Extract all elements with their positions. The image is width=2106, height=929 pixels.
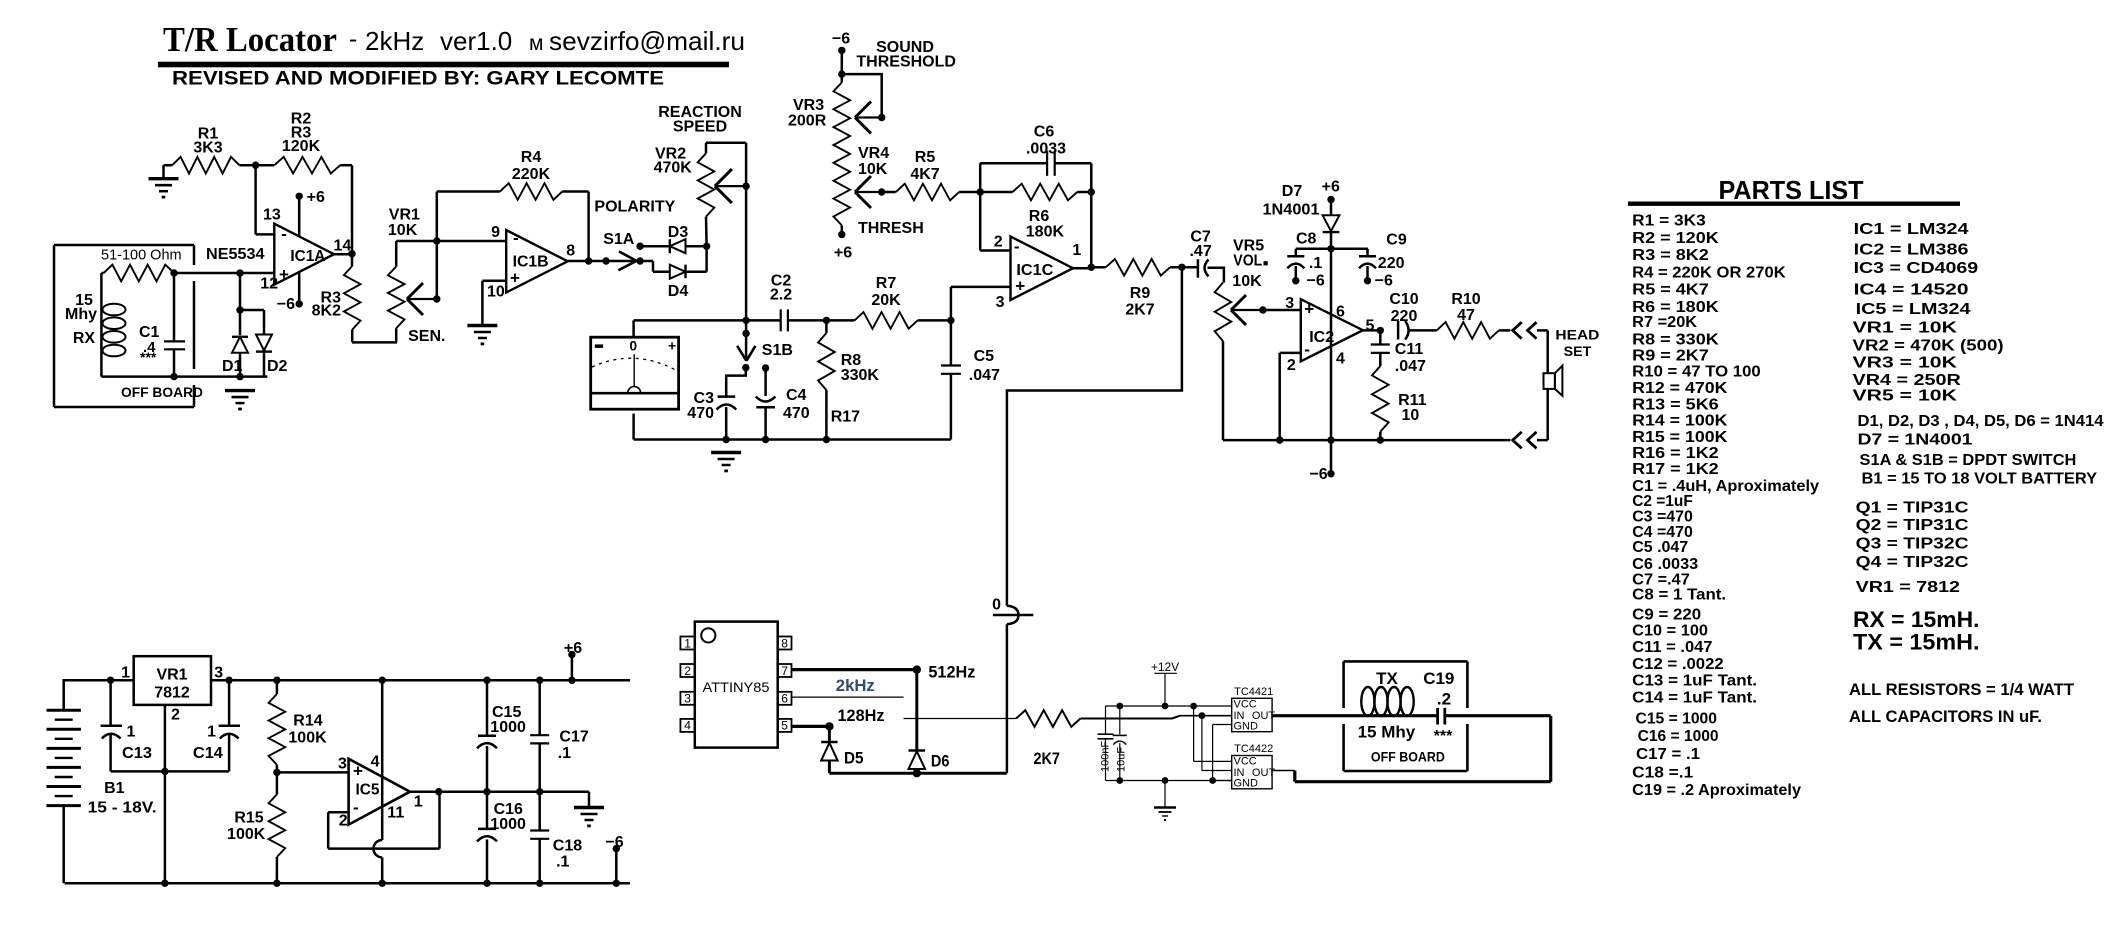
svg-text:D1: D1 (222, 358, 243, 375)
svg-text:C17 = .1: C17 = .1 (1636, 746, 1700, 763)
svg-text:C15 = 1000: C15 = 1000 (1636, 710, 1718, 727)
svg-text:1: 1 (207, 724, 216, 741)
svg-text:1: 1 (684, 636, 691, 650)
svg-text:15 - 18V.: 15 - 18V. (88, 800, 157, 817)
svg-text:м: м (529, 32, 543, 55)
svg-text:330K: 330K (841, 367, 880, 384)
svg-text:+6: +6 (564, 640, 582, 657)
svg-text:2: 2 (1287, 357, 1296, 374)
svg-text:1: 1 (127, 724, 136, 741)
svg-text:2K7: 2K7 (1125, 302, 1154, 319)
svg-text:R17 = 1K2: R17 = 1K2 (1632, 461, 1719, 478)
svg-text:B1: B1 (104, 780, 125, 797)
svg-text:5: 5 (781, 719, 788, 733)
svg-text:C3 =470: C3 =470 (1632, 508, 1693, 525)
svg-text:ATTINY85: ATTINY85 (703, 679, 770, 695)
svg-text:11: 11 (387, 804, 404, 821)
svg-text:128Hz: 128Hz (838, 707, 885, 725)
svg-text:4: 4 (1336, 351, 1345, 368)
svg-text:220: 220 (1391, 308, 1418, 325)
svg-text:C8: C8 (1296, 231, 1317, 248)
svg-text:ALL CAPACITORS IN uF.: ALL CAPACITORS IN uF. (1849, 708, 2042, 726)
svg-text:Q3 = TIP32C: Q3 = TIP32C (1856, 536, 1969, 553)
svg-text:10uF: 10uF (1115, 747, 1127, 772)
svg-text:470: 470 (687, 405, 714, 422)
svg-text:POLARITY: POLARITY (594, 199, 675, 216)
svg-text:VR2 = 470K (500): VR2 = 470K (500) (1853, 338, 2004, 355)
svg-text:VR4: VR4 (858, 145, 889, 162)
svg-text:47: 47 (1457, 307, 1475, 324)
svg-text:C5: C5 (974, 348, 995, 365)
svg-text:-: - (353, 798, 359, 817)
svg-text:.1: .1 (556, 854, 569, 871)
svg-text:VR3 = 10K: VR3 = 10K (1853, 354, 1958, 371)
svg-text:C6: C6 (1034, 124, 1055, 141)
svg-text:VOL: VOL (1233, 252, 1262, 269)
svg-text:6: 6 (781, 692, 788, 706)
svg-text:sevzirfo@mail.ru: sevzirfo@mail.ru (549, 26, 745, 56)
svg-text:.047: .047 (969, 367, 1000, 384)
svg-text:PARTS LIST: PARTS LIST (1719, 175, 1864, 205)
svg-text:−6: −6 (832, 30, 850, 47)
svg-text:8K2: 8K2 (312, 303, 341, 320)
svg-text:R3 = 8K2: R3 = 8K2 (1632, 247, 1709, 264)
svg-text:R12 = 470K: R12 = 470K (1632, 380, 1728, 397)
svg-text:2: 2 (994, 233, 1003, 250)
svg-text:C9 = 220: C9 = 220 (1632, 606, 1701, 623)
svg-text:D4: D4 (668, 283, 689, 300)
svg-text:Q4 = TIP32C: Q4 = TIP32C (1856, 554, 1969, 571)
svg-text:C11 = .047: C11 = .047 (1632, 639, 1712, 656)
svg-text:THRESH: THRESH (858, 220, 924, 237)
svg-text:3: 3 (684, 692, 691, 706)
svg-text:10: 10 (1402, 407, 1420, 424)
svg-text:R13 = 5K6: R13 = 5K6 (1632, 396, 1719, 413)
svg-text:7: 7 (781, 664, 788, 678)
svg-text:T/R Locator: T/R Locator (163, 20, 337, 59)
svg-text:C5 .047: C5 .047 (1632, 539, 1688, 556)
svg-text:C4: C4 (786, 387, 807, 404)
svg-text:.1: .1 (1309, 255, 1322, 272)
svg-text:C12 = .0022: C12 = .0022 (1632, 656, 1724, 673)
svg-text:+: + (279, 265, 289, 284)
svg-text:R4 = 220K OR 270K: R4 = 220K OR 270K (1632, 264, 1786, 281)
svg-text:R5 = 4K7: R5 = 4K7 (1632, 282, 1709, 299)
svg-text:.0033: .0033 (1026, 141, 1066, 158)
svg-text:REVISED AND MODIFIED BY: GARY: REVISED AND MODIFIED BY: GARY LECOMTE (172, 68, 664, 90)
svg-text:IC3 = CD4069: IC3 = CD4069 (1854, 260, 1979, 277)
svg-text:R5: R5 (915, 149, 936, 166)
svg-text:4K7: 4K7 (910, 166, 939, 183)
svg-text:D5: D5 (844, 750, 864, 768)
svg-text:10K: 10K (388, 222, 418, 239)
svg-text:VR1 = 10K: VR1 = 10K (1853, 319, 1958, 336)
svg-text:9: 9 (491, 224, 500, 241)
svg-text:C9: C9 (1386, 232, 1407, 249)
svg-text:-: - (349, 25, 357, 53)
svg-text:10K: 10K (1232, 273, 1262, 290)
svg-text:7812: 7812 (154, 684, 190, 701)
svg-text:C10: C10 (1389, 291, 1418, 308)
svg-text:R9: R9 (1130, 285, 1151, 302)
svg-text:220: 220 (1378, 255, 1405, 272)
svg-text:5: 5 (1366, 318, 1375, 335)
svg-text:470K: 470K (654, 160, 693, 177)
svg-text:D7: D7 (1282, 183, 1303, 200)
svg-text:1000: 1000 (490, 816, 526, 833)
svg-text:ALL RESISTORS = 1/4 WATT: ALL RESISTORS = 1/4 WATT (1849, 681, 2074, 699)
svg-text:VCC: VCC (1234, 756, 1257, 768)
svg-text:VR5 = 10K: VR5 = 10K (1853, 388, 1958, 405)
svg-text:C10 = 100: C10 = 100 (1632, 623, 1708, 640)
svg-text:.47: .47 (1189, 243, 1211, 260)
svg-text:R10: R10 (1451, 291, 1480, 308)
svg-text:C11: C11 (1395, 341, 1424, 358)
svg-text:−6: −6 (1375, 273, 1393, 290)
svg-text:-: - (281, 224, 287, 243)
svg-text:D1, D2, D3 , D4, D5, D6 = 1N41: D1, D2, D3 , D4, D5, D6 = 1N414 (1858, 413, 2104, 430)
svg-text:GND: GND (1234, 778, 1259, 790)
svg-text:C8 = 1 Tant.: C8 = 1 Tant. (1632, 587, 1726, 604)
svg-text:C13: C13 (122, 745, 152, 762)
svg-text:Mhy: Mhy (65, 306, 97, 323)
svg-text:S1A & S1B = DPDT SWITCH: S1A & S1B = DPDT SWITCH (1860, 452, 2077, 469)
svg-text:D7 = 1N4001: D7 = 1N4001 (1858, 432, 1973, 449)
svg-text:GND: GND (1234, 720, 1259, 732)
svg-text:100nF: 100nF (1100, 741, 1112, 772)
svg-text:S1B: S1B (762, 342, 793, 359)
svg-text:−6: −6 (1309, 466, 1327, 483)
svg-text:+: + (510, 269, 520, 288)
svg-text:-: - (1014, 237, 1020, 256)
svg-text:ver1.0: ver1.0 (440, 26, 512, 56)
svg-text:TX: TX (1376, 669, 1398, 688)
svg-text:2kHz: 2kHz (836, 677, 875, 695)
svg-text:.047: .047 (1395, 358, 1426, 375)
svg-text:8: 8 (781, 636, 788, 650)
svg-text:+6: +6 (834, 245, 852, 262)
svg-text:VR1: VR1 (389, 207, 420, 224)
svg-text:+: + (1304, 299, 1314, 318)
svg-text:R10 = 47 TO 100: R10 = 47 TO 100 (1632, 363, 1761, 380)
svg-text:C19: C19 (1423, 669, 1454, 688)
svg-text:***: *** (1434, 728, 1453, 745)
svg-text:TC4422: TC4422 (1234, 743, 1273, 755)
svg-text:R4: R4 (521, 149, 542, 166)
svg-text:C17: C17 (559, 729, 588, 746)
svg-text:R16 = 1K2: R16 = 1K2 (1632, 445, 1719, 462)
svg-text:C19 = .2 Aproximately: C19 = .2 Aproximately (1632, 782, 1801, 799)
svg-text:100K: 100K (227, 826, 266, 843)
svg-text:+12V: +12V (1151, 660, 1179, 674)
svg-text:0: 0 (629, 338, 637, 354)
svg-text:12: 12 (260, 276, 278, 293)
svg-text:1000: 1000 (490, 719, 526, 736)
svg-text:−6: −6 (1307, 273, 1325, 290)
svg-text:R7 =20K: R7 =20K (1632, 314, 1697, 331)
svg-text:120K: 120K (282, 138, 321, 155)
svg-text:RX: RX (73, 330, 96, 347)
svg-text:2: 2 (171, 707, 180, 724)
svg-text:C16 = 1000: C16 = 1000 (1638, 728, 1719, 745)
svg-text:470: 470 (783, 405, 810, 422)
svg-text:0: 0 (992, 596, 1001, 613)
svg-text:−6: −6 (277, 296, 295, 313)
svg-text:14: 14 (334, 238, 352, 255)
svg-text:10: 10 (487, 283, 505, 300)
svg-text:3K3: 3K3 (193, 139, 222, 156)
svg-text:200R: 200R (788, 112, 827, 129)
svg-text:VR1: VR1 (156, 666, 187, 683)
svg-text:R7: R7 (876, 275, 897, 292)
svg-text:TX = 15mH.: TX = 15mH. (1853, 630, 1980, 655)
svg-text:4: 4 (684, 719, 691, 733)
svg-text:Q1 = TIP31C: Q1 = TIP31C (1856, 500, 1969, 517)
svg-text:RX = 15mH.: RX = 15mH. (1853, 607, 1980, 632)
svg-text:15 Mhy: 15 Mhy (1358, 723, 1416, 742)
svg-text:2: 2 (684, 664, 691, 678)
svg-text:1N4001: 1N4001 (1263, 202, 1320, 219)
svg-text:IC4 = 14520: IC4 = 14520 (1854, 282, 1969, 299)
svg-text:SPEED: SPEED (673, 119, 727, 136)
svg-text:IC1 = LM324: IC1 = LM324 (1854, 221, 1969, 238)
svg-text:VCC: VCC (1234, 699, 1257, 711)
svg-text:R15 = 100K: R15 = 100K (1632, 429, 1728, 446)
svg-text:8: 8 (566, 243, 575, 260)
svg-text:+6: +6 (307, 189, 325, 206)
svg-text:THRESHOLD: THRESHOLD (856, 53, 956, 70)
svg-text:***: *** (140, 349, 157, 365)
svg-text:2kHz: 2kHz (365, 26, 424, 56)
svg-text:180K: 180K (1026, 223, 1065, 240)
svg-text:1: 1 (121, 665, 130, 682)
svg-text:C14 = 1uF Tant.: C14 = 1uF Tant. (1632, 690, 1757, 707)
svg-text:R14 = 100K: R14 = 100K (1632, 412, 1728, 429)
svg-text:R2 = 120K: R2 = 120K (1632, 230, 1719, 247)
svg-text:-: - (513, 229, 519, 248)
svg-text:HEAD: HEAD (1555, 328, 1599, 343)
svg-text:D6: D6 (931, 753, 950, 771)
svg-text:512Hz: 512Hz (928, 663, 975, 681)
svg-text:R9 = 2K7: R9 = 2K7 (1632, 347, 1709, 364)
svg-text:OFF BOARD: OFF BOARD (1371, 748, 1445, 764)
svg-text:VR1 = 7812: VR1 = 7812 (1856, 579, 1961, 596)
svg-text:1: 1 (414, 794, 423, 811)
svg-text:C18 =.1: C18 =.1 (1632, 764, 1693, 781)
svg-text:IC1A: IC1A (290, 248, 325, 265)
svg-text:OFF BOARD: OFF BOARD (121, 385, 203, 400)
svg-text:51-100 Ohm: 51-100 Ohm (101, 248, 182, 264)
svg-text:SEN.: SEN. (408, 328, 445, 345)
svg-text:C13 = 1uF Tant.: C13 = 1uF Tant. (1632, 673, 1757, 690)
svg-text:R1 = 3K3: R1 = 3K3 (1632, 213, 1706, 230)
svg-text:C18: C18 (553, 837, 582, 854)
svg-text:D2: D2 (267, 358, 288, 375)
svg-text:100K: 100K (288, 729, 327, 746)
svg-text:220K: 220K (512, 166, 551, 183)
svg-text:B1 = 15 TO 18 VOLT BATTERY: B1 = 15 TO 18 VOLT BATTERY (1862, 470, 2098, 487)
svg-text:20K: 20K (871, 292, 901, 309)
svg-text:NE5534: NE5534 (206, 246, 265, 263)
svg-text:2: 2 (339, 813, 348, 830)
svg-text:13: 13 (263, 207, 281, 224)
svg-text:6: 6 (1336, 304, 1345, 321)
svg-text:2K7: 2K7 (1033, 750, 1060, 768)
svg-text:.1: .1 (558, 745, 571, 762)
svg-text:−6: −6 (605, 834, 623, 851)
svg-text:3: 3 (338, 756, 347, 773)
svg-text:TC4421: TC4421 (1234, 686, 1273, 698)
svg-text:R15: R15 (234, 809, 263, 826)
svg-text:R8 = 330K: R8 = 330K (1632, 331, 1719, 348)
svg-text:D3: D3 (668, 224, 689, 241)
svg-text:IC5: IC5 (356, 782, 380, 799)
svg-text:C6 .0033: C6 .0033 (1632, 556, 1698, 573)
svg-text:S1A: S1A (603, 231, 635, 248)
svg-text:3: 3 (996, 294, 1005, 311)
svg-text:1: 1 (1072, 242, 1081, 259)
svg-text:10K: 10K (858, 161, 888, 178)
svg-text:4: 4 (371, 754, 380, 771)
svg-text:VR4 = 250R: VR4 = 250R (1853, 372, 1962, 389)
svg-text:IC2 = LM386: IC2 = LM386 (1854, 242, 1969, 259)
svg-text:3: 3 (1285, 295, 1294, 312)
svg-text:R17: R17 (831, 408, 860, 425)
svg-text:+6: +6 (1322, 179, 1340, 196)
svg-text:+: + (668, 338, 676, 354)
svg-text:-: - (1304, 340, 1310, 359)
svg-text:+: + (353, 761, 363, 780)
svg-text:IC5 = LM324: IC5 = LM324 (1856, 301, 1971, 318)
svg-text:C14: C14 (193, 745, 223, 762)
svg-text:SET: SET (1564, 344, 1592, 359)
svg-text:+: + (1015, 277, 1025, 296)
svg-text:R14: R14 (293, 712, 322, 729)
svg-text:2.2: 2.2 (770, 287, 792, 304)
svg-text:.2: .2 (1437, 689, 1451, 708)
svg-text:Q2 = TIP31C: Q2 = TIP31C (1856, 517, 1969, 534)
